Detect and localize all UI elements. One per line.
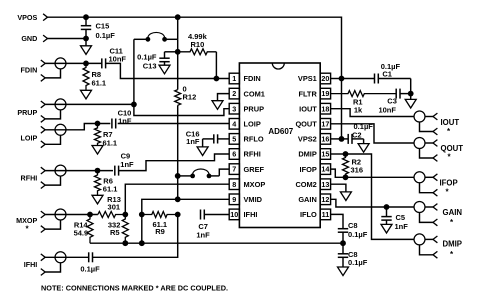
node LOIP-R7 — [95, 121, 101, 127]
pin 7 box (GREF) — [229, 164, 239, 175]
svg-text:PRUP: PRUP — [17, 108, 37, 117]
connector IFOP — [414, 172, 458, 197]
node C1-C3-gnd — [408, 91, 414, 97]
svg-text:C13: C13 — [143, 61, 157, 70]
wire MXOP to R13 — [45, 214, 98, 216]
pin name RFLO — [244, 135, 264, 144]
pin name COM1 — [244, 89, 265, 98]
svg-text:FDIN: FDIN — [244, 74, 261, 83]
svg-text:MXOP: MXOP — [244, 180, 266, 189]
wire jumper W1 to PRUP — [133, 39, 135, 104]
pin 12 box (GAIN) — [320, 194, 330, 205]
capacitor C16 — [186, 129, 229, 146]
capacitor C2 — [342, 122, 374, 144]
resistor R5 — [108, 215, 128, 244]
capacitor C7 — [196, 210, 210, 240]
connector MXOP — [16, 209, 66, 233]
connector IOUT — [414, 111, 459, 136]
capacitor C9 — [115, 152, 134, 176]
pin name RFHI — [244, 150, 261, 159]
svg-text:RFLO: RFLO — [244, 135, 264, 144]
svg-text:61.1: 61.1 — [103, 138, 118, 147]
svg-text:VPOS: VPOS — [17, 13, 37, 22]
svg-text:1nF: 1nF — [395, 222, 409, 231]
pin 8 box (MXOP) — [229, 179, 239, 190]
node FDIN-R8 — [83, 61, 89, 67]
pin name FDIN — [244, 74, 261, 83]
svg-text:61.1: 61.1 — [103, 184, 118, 193]
ground below R6 — [92, 195, 103, 204]
node VPS2-bus — [339, 136, 345, 142]
pin name IFOP — [300, 165, 317, 174]
svg-text:19: 19 — [321, 89, 329, 98]
pin 11 box (IFLO) — [320, 209, 330, 220]
svg-text:IOUT: IOUT — [441, 118, 460, 127]
svg-text:0.1µF: 0.1µF — [96, 31, 116, 40]
wire VMID rail — [90, 242, 343, 244]
ground below R7 — [92, 146, 103, 155]
resistor R13 — [98, 195, 125, 218]
capacitor C8 lower — [338, 243, 368, 267]
pin name GAIN — [298, 195, 316, 204]
pin name LOIP — [244, 120, 261, 129]
resistor R9 — [142, 212, 178, 237]
svg-text:R12: R12 — [183, 93, 197, 102]
node VMID-vert — [139, 240, 145, 246]
svg-text:1: 1 — [232, 74, 236, 83]
jumper W2 — [178, 169, 220, 178]
ground below C5 — [381, 224, 392, 233]
svg-text:C8: C8 — [348, 221, 358, 230]
resistor R1 — [331, 91, 397, 115]
svg-text:FDIN: FDIN — [21, 65, 38, 74]
svg-text:16: 16 — [321, 135, 329, 144]
connector DMIP — [414, 234, 462, 259]
connector QOUT — [414, 138, 463, 162]
svg-text:61.1: 61.1 — [92, 79, 107, 88]
wire pin14 to IFOP — [331, 169, 346, 177]
node VMID-R12col — [175, 196, 181, 202]
capacitor C13 — [137, 52, 178, 71]
svg-text:C3: C3 — [387, 97, 397, 106]
node MXOP-R14 — [87, 212, 93, 218]
ground below C16 — [197, 139, 208, 156]
capacitor C1 — [342, 62, 411, 84]
connector FDIN — [21, 58, 66, 81]
note text — [41, 284, 228, 293]
svg-text:R9: R9 — [155, 227, 165, 236]
svg-text:GAIN: GAIN — [443, 208, 463, 217]
wire VPOS to jumper W1 — [177, 17, 179, 39]
resistor R6 — [95, 171, 118, 196]
svg-text:4: 4 — [232, 119, 236, 128]
wire RFHI to C9 — [45, 170, 113, 172]
svg-text:R5: R5 — [110, 228, 120, 237]
svg-text:9: 9 — [232, 195, 236, 204]
svg-text:1nF: 1nF — [186, 137, 200, 146]
wire IFOP row — [346, 176, 414, 178]
svg-text:R10: R10 — [191, 40, 205, 49]
pin name PRUP — [244, 104, 265, 113]
ground below R8 — [81, 90, 92, 99]
wire GND — [48, 38, 87, 40]
pin 3 box (PRUP) — [229, 103, 239, 114]
svg-text:IFHI: IFHI — [244, 210, 258, 219]
capacitor C8 upper — [338, 221, 368, 243]
capacitor C5 — [381, 207, 408, 231]
resistor R10 — [178, 32, 217, 79]
node R9-C7-IFHIcol — [175, 212, 181, 218]
wire C11 to pin1 — [106, 63, 230, 78]
wire node to pin8 — [125, 184, 229, 214]
pin name DMIP — [298, 150, 317, 159]
pin 6 box (RFHI) — [229, 149, 239, 160]
pin 2 box (COM1) — [229, 88, 239, 99]
terminal VPOS — [17, 13, 47, 22]
svg-text:301: 301 — [108, 203, 121, 212]
svg-text:20: 20 — [321, 74, 329, 83]
svg-text:LOIP: LOIP — [244, 120, 261, 129]
svg-text:0.1µF: 0.1µF — [137, 53, 157, 62]
pin 10 box (IFHI) — [229, 209, 239, 220]
svg-text:6: 6 — [232, 150, 236, 159]
pin name COM2 — [295, 180, 316, 189]
svg-text:VPS1: VPS1 — [298, 74, 317, 83]
wire jumper W2 to pin7 — [219, 169, 229, 176]
svg-text:GREF: GREF — [244, 165, 265, 174]
svg-text:COM2: COM2 — [295, 180, 316, 189]
connector RFHI — [21, 165, 66, 188]
resistor R14 — [74, 215, 93, 244]
svg-text:IOUT: IOUT — [299, 104, 317, 113]
svg-text:11: 11 — [322, 210, 330, 219]
node jumperW2-left — [175, 173, 181, 179]
capacitor C-IFHI 0.1uF — [80, 252, 100, 273]
wire VMID vertical — [142, 199, 229, 243]
svg-text:VMID: VMID — [244, 195, 263, 204]
node C15-GND — [83, 36, 89, 42]
svg-text:0.1µF: 0.1µF — [348, 258, 368, 267]
capacitor C15 — [81, 17, 115, 40]
pin 18 box (IOUT) — [320, 103, 330, 114]
svg-text:14: 14 — [321, 165, 329, 174]
svg-text:13: 13 — [321, 180, 329, 189]
svg-text:IFOP: IFOP — [440, 178, 458, 187]
wire C10 to pin4 — [118, 123, 230, 125]
svg-text:QOUT: QOUT — [295, 120, 317, 129]
svg-text:C5: C5 — [396, 213, 406, 222]
wire pin12 to GAIN — [331, 199, 414, 207]
wire C1 down — [410, 79, 412, 94]
pin name IFLO — [300, 210, 317, 219]
node GAIN-C5 — [384, 204, 390, 210]
node C13-R10 — [175, 49, 181, 55]
svg-text:IFLO: IFLO — [300, 210, 317, 219]
svg-text:NOTE: CONNECTIONS MARKED * ARE: NOTE: CONNECTIONS MARKED * ARE DC COUPLE… — [41, 284, 228, 293]
svg-text:AD607: AD607 — [268, 127, 293, 136]
resistor R2 — [343, 154, 364, 177]
wire PRUP to pin3 — [45, 103, 134, 105]
IC name label AD607 — [268, 127, 293, 136]
resistor R12 — [175, 85, 197, 106]
pin name IOUT — [299, 104, 317, 113]
svg-text:3: 3 — [232, 104, 236, 113]
wire PRUP jog to pin3 — [134, 104, 229, 115]
resistor R7 — [95, 124, 118, 148]
wire pin15 to R2 — [331, 153, 346, 155]
pin 5 box (RFLO) — [229, 134, 239, 145]
wire pin18 to IOUT — [331, 109, 414, 117]
svg-text:0.1µF: 0.1µF — [348, 230, 368, 239]
IC U1 AD607 — [239, 63, 320, 228]
pin name FLTR — [298, 89, 317, 98]
ground below C13 — [159, 65, 170, 74]
connector IFHI — [24, 252, 66, 276]
node R10-FDIN — [214, 76, 220, 82]
jumper W1 — [134, 32, 178, 41]
node C8-rail — [340, 240, 346, 246]
wire R12 column lower — [177, 105, 179, 199]
terminal GND — [21, 34, 47, 43]
wire IFHI to cap — [45, 256, 88, 258]
svg-text:GAIN: GAIN — [298, 195, 316, 204]
pin 15 box (DMIP) — [320, 149, 330, 160]
pin 4 box (LOIP) — [229, 119, 239, 130]
pin name QOUT — [295, 120, 317, 129]
node VPOS-R12col — [175, 14, 181, 20]
wire pin17 to QOUT — [331, 124, 414, 143]
wire IFHI cap to column — [93, 215, 178, 258]
pin 17 box (QOUT) — [320, 119, 330, 130]
svg-text:10nF: 10nF — [109, 55, 127, 64]
ground below C8 — [338, 267, 349, 276]
svg-text:GND: GND — [21, 34, 37, 43]
pin 13 box (COM2) — [320, 179, 330, 190]
svg-text:54.9: 54.9 — [74, 229, 89, 238]
node R5-rail — [122, 240, 128, 246]
ground below C3 — [405, 94, 416, 108]
pin 16 box (VPS2) — [320, 134, 330, 145]
svg-text:10: 10 — [230, 210, 238, 219]
svg-text:LOIP: LOIP — [21, 133, 38, 142]
wire pin20 to bus — [331, 78, 342, 80]
ground COM2 pin13 — [331, 184, 352, 200]
pin name VPS2 — [298, 135, 317, 144]
connector GAIN — [414, 202, 462, 227]
pin 14 box (IFOP) — [320, 164, 330, 175]
svg-text:15: 15 — [321, 150, 329, 159]
pin 20 box (VPS1) — [320, 73, 330, 84]
pin name IFHI — [244, 210, 258, 219]
wire C9 to pin6 — [119, 154, 230, 171]
svg-text:7: 7 — [232, 165, 236, 174]
wire DMIP link — [346, 154, 414, 239]
wire C7 to pin10 — [204, 214, 229, 216]
svg-text:8: 8 — [232, 180, 236, 189]
svg-text:316: 316 — [351, 165, 364, 174]
pin 1 box (FDIN) — [229, 73, 239, 84]
node RFHI-R6 — [95, 168, 101, 174]
wire VPOS col to C13 node — [177, 39, 179, 52]
wire pin16 to bus — [331, 138, 342, 140]
svg-text:1nF: 1nF — [196, 230, 210, 239]
svg-text:RFHI: RFHI — [244, 150, 261, 159]
svg-text:COM1: COM1 — [244, 89, 265, 98]
node R13-R5-pin8 — [122, 212, 128, 218]
svg-text:1k: 1k — [354, 106, 363, 115]
pin name GREF — [244, 165, 265, 174]
wire pin11 to C8 — [331, 214, 343, 228]
svg-text:2: 2 — [232, 89, 236, 98]
svg-text:C15: C15 — [96, 22, 110, 31]
svg-text:IFHI: IFHI — [24, 260, 38, 269]
svg-text:1nF: 1nF — [120, 160, 134, 169]
resistor R8 — [83, 63, 106, 90]
wire R12 column upper — [177, 52, 179, 90]
wire VPOS rail — [48, 17, 342, 139]
svg-text:FLTR: FLTR — [298, 89, 317, 98]
svg-text:IFOP: IFOP — [300, 165, 317, 174]
ground below C2 — [358, 139, 369, 152]
node VMID-IFHI row — [139, 212, 145, 218]
wire LOIP to C10 — [45, 124, 110, 130]
pin 19 box (FLTR) — [320, 88, 330, 99]
ground COM1 pin2 — [212, 94, 229, 110]
svg-text:C2: C2 — [352, 131, 362, 140]
svg-text:QOUT: QOUT — [441, 144, 464, 153]
capacitor C3 — [378, 89, 410, 115]
svg-text:5: 5 — [232, 135, 236, 144]
capacitor C10 — [112, 109, 132, 129]
node PRUP-jumper — [131, 102, 137, 108]
svg-text:0.1µF: 0.1µF — [80, 265, 100, 274]
svg-text:17: 17 — [321, 119, 329, 128]
wire FDIN to C11 — [45, 62, 102, 64]
node VPS1-bus — [339, 76, 345, 82]
pin name MXOP — [244, 180, 266, 189]
svg-text:12: 12 — [321, 195, 329, 204]
svg-text:VPS2: VPS2 — [298, 135, 317, 144]
svg-text:18: 18 — [321, 104, 329, 113]
connector LOIP — [21, 124, 66, 147]
svg-text:RFHI: RFHI — [21, 173, 38, 182]
svg-text:PRUP: PRUP — [244, 104, 265, 113]
ground below C15 — [81, 39, 92, 55]
svg-text:DMIP: DMIP — [298, 150, 317, 159]
svg-text:C1: C1 — [382, 70, 392, 79]
node R2-IFOP — [343, 174, 349, 180]
capacitor C11 — [102, 47, 127, 69]
pin name VPS1 — [298, 74, 317, 83]
pin 9 box (VMID) — [229, 194, 239, 205]
pin name VMID — [244, 195, 263, 204]
svg-text:10nF: 10nF — [378, 106, 396, 115]
node VPOS-C15 — [83, 14, 89, 20]
svg-text:DMIP: DMIP — [443, 240, 463, 249]
node DMIP-R2 top — [343, 151, 349, 157]
connector PRUP — [17, 99, 66, 122]
